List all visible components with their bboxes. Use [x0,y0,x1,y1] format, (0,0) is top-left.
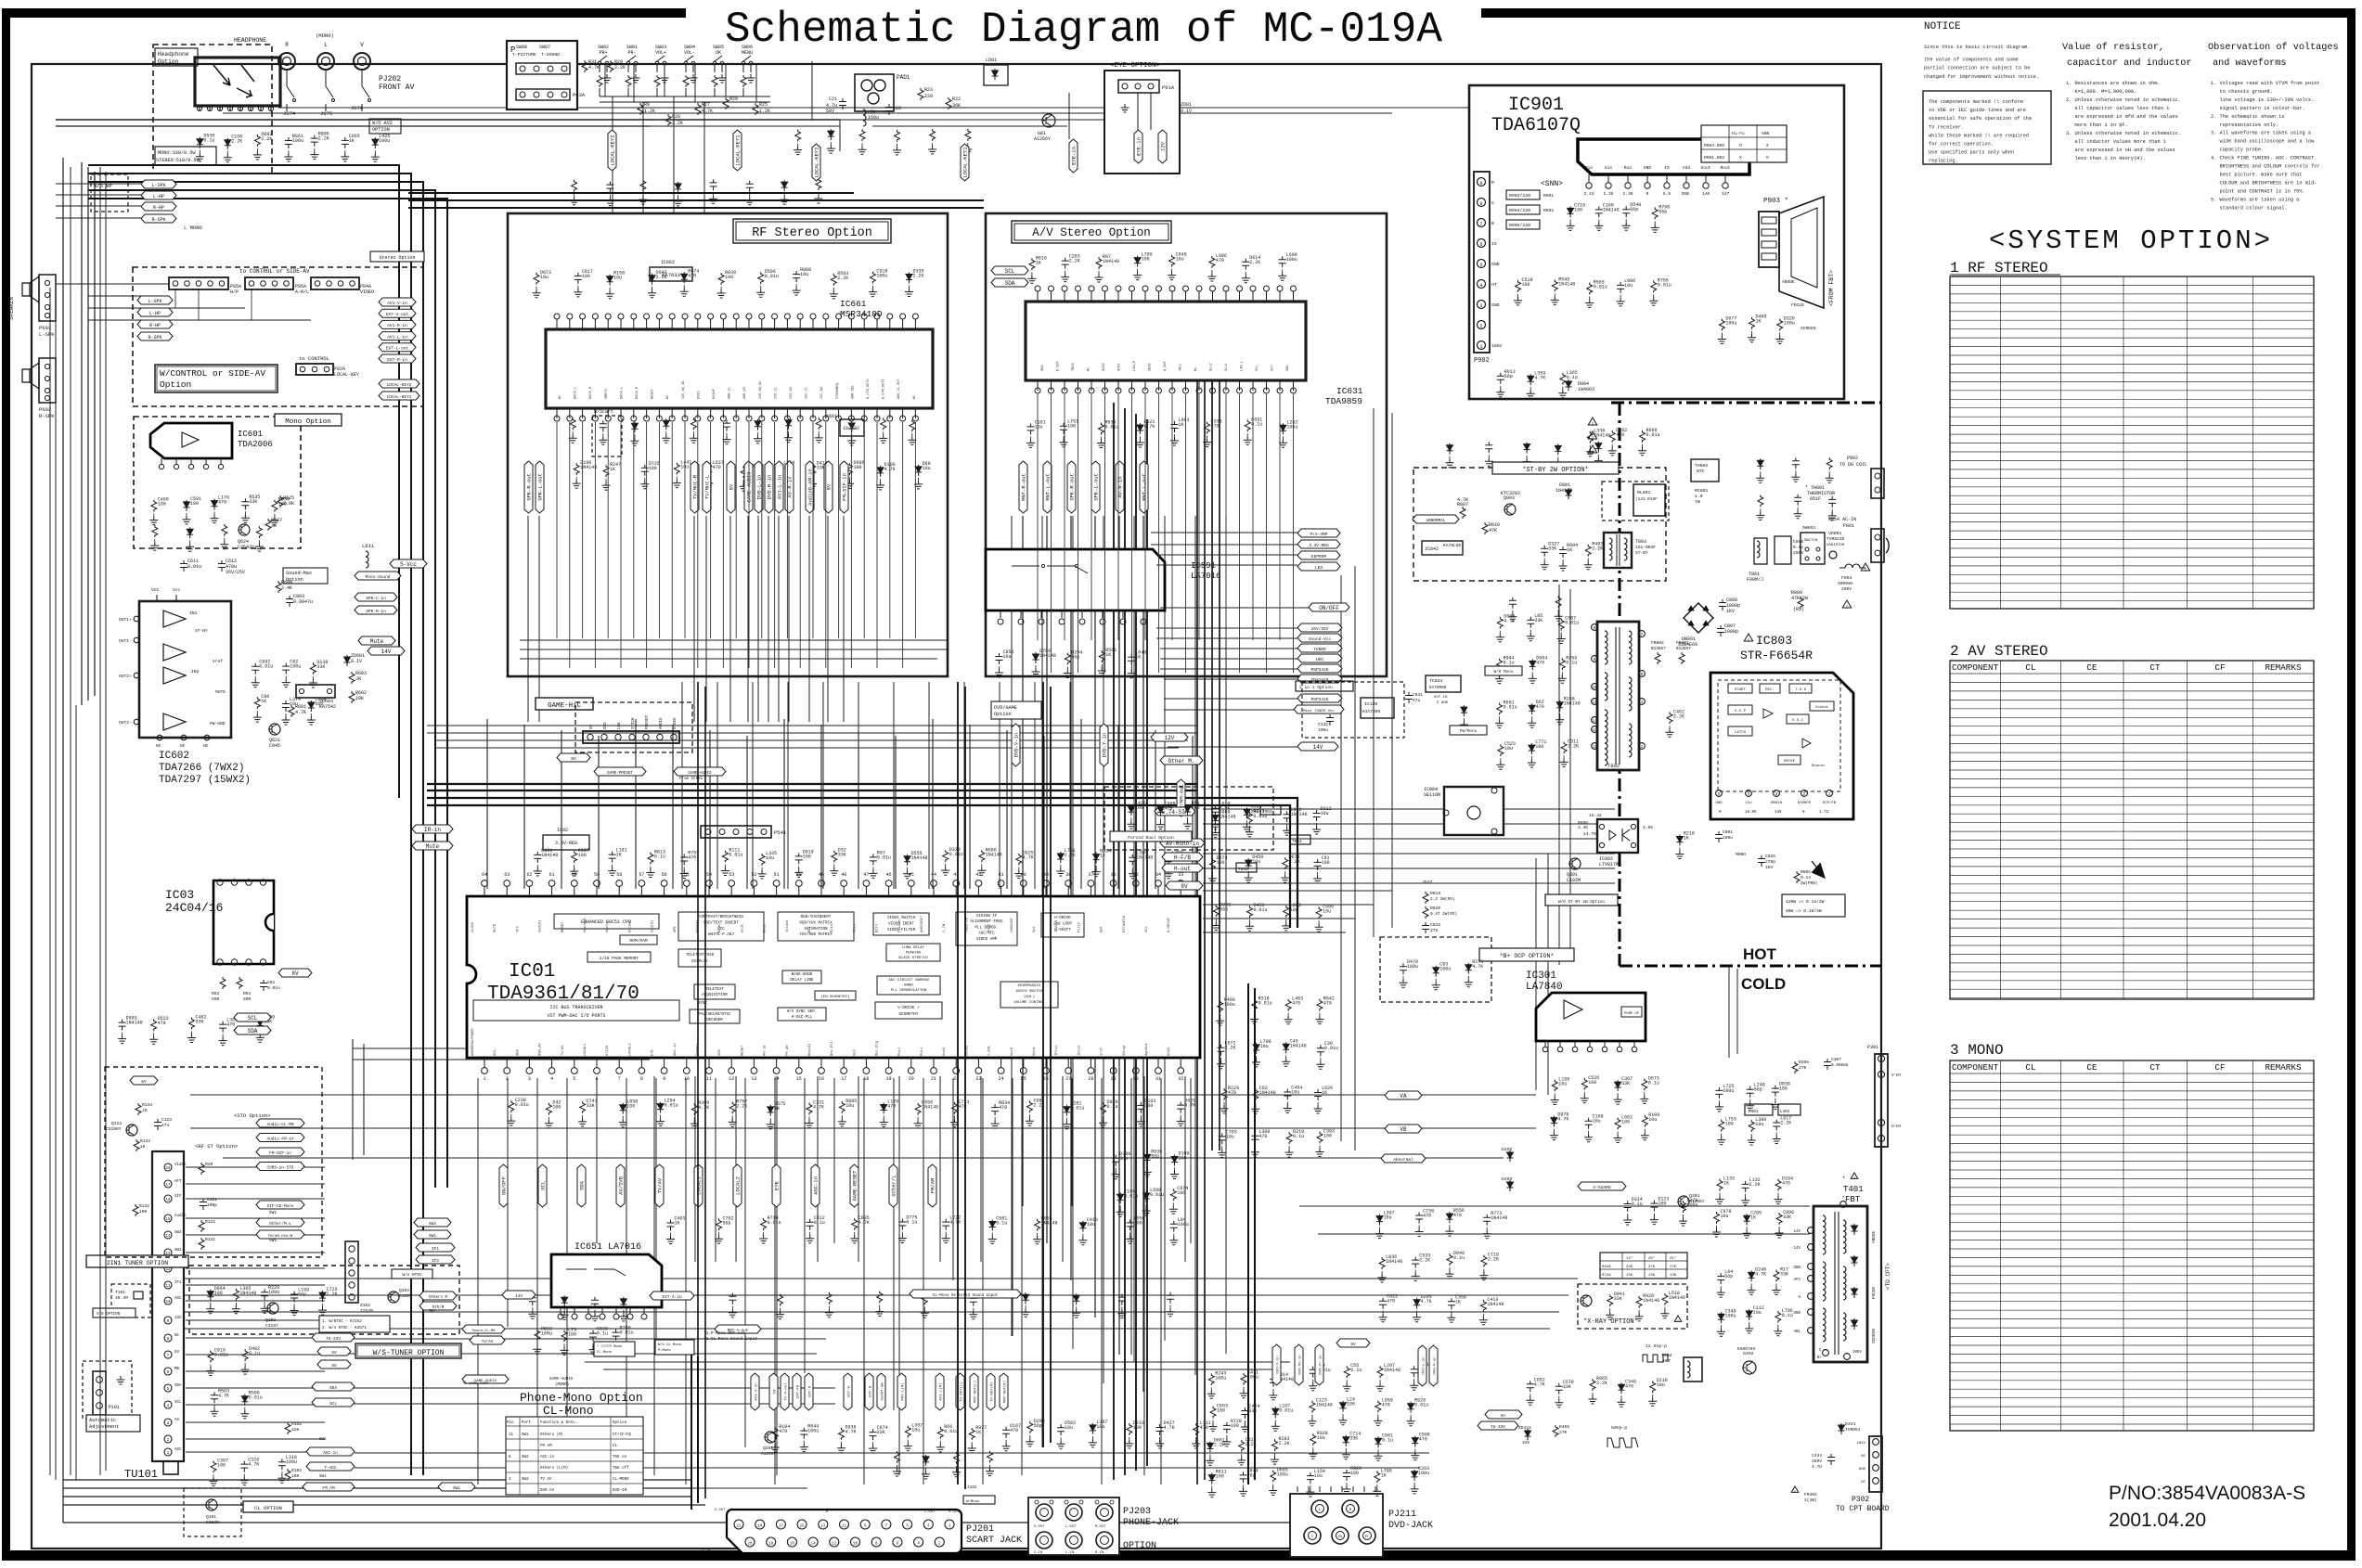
svg-text:0.1u: 0.1u [203,138,214,144]
w/control or side-av option dashed box [133,267,423,406]
transistor cluster right of IC01 bottom [1112,1155,1119,1166]
svg-text:10u: 10u [766,855,774,861]
svg-text:100: 100 [1574,207,1582,212]
svg-text:120W => 0.13/2W: 120W => 0.13/2W [1786,899,1825,905]
component cluster forced dual [1128,804,1134,816]
pills B+ TU-33V [1485,1410,1522,1419]
diode cluster st-by [1541,546,1548,557]
svg-text:NC: NC [913,395,917,399]
resistor R602 [349,691,355,703]
svg-text:VIDEO AMP: VIDEO AMP [976,938,998,942]
crystal X661 [840,419,864,436]
svg-text:51: 51 [774,872,780,878]
svg-text:1K: 1K [774,1106,780,1112]
svg-text:GND: GND [1644,165,1652,171]
svg-text:8V: 8V [141,1079,147,1085]
svg-text:LOCAL2: LOCAL2 [735,1176,742,1195]
svg-text:LOCAL-KEY1: LOCAL-KEY1 [735,135,742,166]
svg-text:2.2K: 2.2K [1279,1441,1290,1446]
svg-text:ANODE: ANODE [1872,1230,1877,1243]
svg-text:D402: D402 [1502,1147,1513,1152]
svg-text:10u: 10u [1323,908,1331,914]
svg-text:0.01u: 0.01u [1565,621,1579,626]
svg-text:IF2: IF2 [432,1259,439,1264]
svg-text:FM/AM: FM/AM [930,1178,936,1194]
resistor R601 [289,705,294,717]
svg-text:2.05: 2.05 [1643,825,1653,830]
svg-text:1K: 1K [1684,836,1689,842]
svg-text:R-HP: R-HP [153,205,164,211]
svg-text:R121: R121 [205,1237,215,1242]
svg-text:V-OUT: V-OUT [715,1509,726,1512]
svg-text:2.2K: 2.2K [318,136,329,142]
svg-text:ABL: ABL [1793,1330,1801,1334]
svg-text:R903/220: R903/220 [1509,193,1530,199]
svg-text:0.1u: 0.1u [996,1221,1007,1227]
svg-text:2.36: 2.36 [1622,191,1633,197]
svg-text:partial connection are subject: partial connection are subject to be [1924,66,2030,71]
svg-text:Mute: Mute [370,638,384,645]
svg-text:CVBSINT: CVBSINT [1011,917,1014,932]
svg-text:Gin: Gin [1605,165,1613,171]
svg-text:8V: 8V [1350,1343,1356,1347]
svg-text:2.43: 2.43 [1583,191,1594,197]
svg-text:Mute: Mute [426,843,440,850]
svg-text:1N4003: 1N4003 [1578,387,1594,392]
svg-text:MNT-L-out: MNT-L-out [1142,473,1148,501]
power caps right [1676,835,1683,846]
svg-text:1S1-003F: 1S1-003F [1635,545,1656,550]
IC301 components cluster [1552,1080,1557,1092]
svg-text:Gnd3: Gnd3 [942,1047,947,1056]
svg-text:changed for improvement withou: changed for improvement without notice. [1924,74,2039,80]
svg-text:CT/CF/CE: CT/CF/CE [613,1433,632,1437]
svg-text:1N4148: 1N4148 [239,1291,256,1296]
svg-text:I2C_CL: I2C_CL [806,387,809,399]
svg-text:470: 470 [713,465,721,470]
svg-text:Ph12: Ph12 [897,1047,902,1056]
svg-text:J574: J574 [283,110,296,117]
svg-text:HT: HT [1491,282,1497,288]
ws tuner option label [355,1343,461,1358]
svg-text:TDA7266 (7WX2): TDA7266 (7WX2) [159,763,244,774]
svg-text:G2in: G2in [852,924,857,932]
svg-text:33K: 33K [1534,618,1542,623]
svg-text:Dec_P1l: Dec_P1l [830,1040,834,1056]
svg-text:CL-Mono: CL-Mono [597,1351,613,1355]
svg-text:P03A: P03A [573,92,586,98]
component cluster IC661 lower dense [570,418,575,430]
svg-text:Iblack: Iblack [785,919,790,932]
headphone option dashed box [153,45,272,174]
svg-text:4.7K: 4.7K [1472,964,1483,970]
svg-text:33K: 33K [316,664,325,670]
X-cap C809 [1775,536,1791,564]
IC01 teletext acq box [694,984,735,999]
component cluster left of IC01 [119,1020,126,1031]
capacitor C611 C612 [180,560,187,572]
svg-text:H-F/B: H-F/B [1174,855,1191,861]
op-amp IC601 [150,423,232,458]
svg-text:470: 470 [1616,432,1624,438]
svg-text:2.2K: 2.2K [837,276,848,281]
svg-text:L: L [324,42,328,48]
2in1 tuner option label [86,1255,188,1267]
svg-text:1N4148: 1N4148 [1386,1259,1402,1265]
svg-text:1N4148: 1N4148 [1491,1215,1507,1221]
svg-text:2.2K: 2.2K [231,139,242,145]
svg-text:2.2K: 2.2K [614,65,626,71]
stand-by transformer T803 [1604,533,1632,568]
svg-text:R448: R448 [1602,1266,1611,1269]
svg-text:20: 20 [909,1076,914,1082]
svg-text:33K: 33K [1248,1408,1257,1414]
svg-text:100: 100 [1144,1103,1153,1109]
svg-text:470: 470 [1010,1428,1018,1433]
transistor Q102 [267,1303,278,1314]
svg-text:Z102: Z102 [360,1303,370,1308]
svg-text:TV receiver.: TV receiver. [1929,124,1964,130]
svg-text:SCREEN: SCREEN [1872,1329,1877,1343]
svg-text:35V/25V: 35V/25V [226,570,245,575]
svg-text:1K: 1K [349,138,355,144]
IC651 components [529,1294,536,1305]
svg-text:R: R [1491,180,1494,186]
control connector strip 2 [245,277,293,289]
pills IR-in Mute mid [412,825,453,833]
svg-text:KA7633: KA7633 [662,272,680,278]
svg-text:SW2: SW2 [269,1211,277,1215]
IC01 iic box [473,1000,679,1021]
scart connector PJ201 [727,1510,962,1553]
svg-text:100u: 100u [286,1459,297,1465]
regulator KA7633 [650,267,692,281]
svg-text:R904.905: R904.905 [1704,143,1724,148]
component cluster IC601 row2 [152,525,158,537]
svg-text:470: 470 [999,1105,1007,1111]
svg-text:RESET: RESET [741,1045,744,1056]
svg-text:GND: GND [1715,802,1723,805]
svg-text:SW1: SW1 [429,1310,436,1314]
svg-text:56: 56 [662,872,667,878]
svg-text:29: 29 [1111,1076,1116,1082]
svg-text:CL: CL [2025,1062,2035,1073]
svg-text:1: 1 [1479,344,1482,350]
svg-text:470: 470 [1423,1214,1431,1219]
svg-text:135: 135 [1775,811,1782,815]
svg-text:13K: 13K [1626,1274,1633,1278]
st-by 2w option label [1492,462,1619,474]
svg-text:Vdr8: Vdr8 [1010,1047,1014,1056]
svg-text:8V: 8V [571,756,576,762]
svg-text:Audio-AM-in: Audio-AM-in [267,1137,294,1141]
svg-text:TC844: TC844 [1429,678,1443,684]
svg-text:SDA: SDA [329,1386,337,1391]
svg-text:GAME-RESET: GAME-RESET [852,1170,858,1202]
svg-text:START: START [1735,688,1747,692]
svg-text:UOC: UOC [1316,657,1323,662]
hot cold divider [1611,403,1881,966]
svg-text:AFC: AFC [1793,1279,1801,1282]
svg-text:32: 32 [1178,1076,1183,1082]
svg-text:28: 28 [1088,1076,1093,1082]
svg-text:CF: CF [2214,662,2225,673]
svg-text:YUV/RGB MATRIX: YUV/RGB MATRIX [799,932,833,937]
dvd pills [1418,1345,1426,1386]
svg-text:GAME-AUDIO: GAME-AUDIO [549,1378,574,1382]
svg-text:A1266Y: A1266Y [1034,136,1051,142]
svg-text:I2S_WS: I2S_WS [790,387,794,399]
svg-text:10: 10 [142,1108,148,1113]
svg-text:44: 44 [931,872,936,878]
svg-text:5.5: 5.5 [1663,191,1671,197]
power components cluster B [1461,705,1467,716]
svg-text:MNT-L(M): MNT-L(M) [901,1382,906,1400]
svg-text:REC-: REC- [1765,688,1775,692]
svg-text:!: ! [1853,1176,1854,1180]
svg-text:C102M: C102M [206,1520,219,1525]
svg-text:SCL: SCL [494,1048,497,1056]
resistor R627 [265,519,271,531]
svg-text:1K: 1K [1105,652,1111,658]
svg-text:470: 470 [1625,1383,1633,1389]
svg-text:NC: NC [203,743,209,749]
svg-text:NC: NC [180,743,186,749]
svg-text:A1266Y: A1266Y [1689,1199,1705,1204]
svg-text:Hi-Fo: Hi-Fo [1732,131,1745,136]
svg-text:2.2K: 2.2K [1289,859,1300,865]
svg-text:R819: R819 [1430,891,1440,896]
svg-text:38: 38 [1065,872,1071,878]
W/O HP dashed box [91,174,128,212]
svg-text:1K: 1K [1567,547,1572,553]
svg-text:B13657: B13657 [1651,647,1666,651]
wire bottom right horizontals [585,1206,1810,1369]
svg-text:470: 470 [218,500,226,506]
svg-text:2.2K: 2.2K [1065,853,1076,858]
svg-text:<SYSTEM OPTION>: <SYSTEM OPTION> [1989,225,2273,256]
connector Z102 [345,1241,358,1303]
svg-text:61: 61 [549,872,555,878]
svg-text:R29: R29 [729,96,738,102]
2in1 option area [1302,682,1404,738]
svg-text:5. Waveforms are taken using a: 5. Waveforms are taken using a [2211,197,2299,202]
svg-text:-14V: -14V [1791,1247,1801,1251]
svg-text:G: G [1491,200,1494,206]
svg-text:C102M: C102M [1567,878,1581,883]
svg-text:HDT: HDT [1663,1358,1671,1364]
svg-text:Option: Option [994,712,1012,717]
svg-text:SCL: SCL [540,1181,547,1190]
svg-text:14: 14 [1592,720,1597,724]
front AV jack R [278,53,295,70]
svg-text:STANDBYQ: STANDBYQ [836,383,840,399]
tuner TU101 [152,1151,184,1461]
svg-text:33K: 33K [1119,1156,1128,1162]
pills SPK-L-in SPK-R-in [355,593,397,601]
svg-text:0.01u: 0.01u [1414,1403,1428,1408]
svg-text:Dec80: Dec80 [965,1045,969,1056]
svg-text:270p: 270p [1765,859,1775,865]
component cluster stby extra [1447,443,1453,455]
cpt connector P302 [1869,1436,1882,1492]
svg-text:SCL: SCL [1145,925,1149,932]
svg-text:1N4148: 1N4148 [1103,259,1119,264]
svg-text:NC: NC [1861,1455,1865,1459]
svg-text:47u: 47u [1413,698,1421,703]
svg-text:19: 19 [757,1525,763,1529]
svg-text:Sound-CL-MN: Sound-CL-MN [471,1329,495,1333]
amplifier IC602 [139,601,231,738]
svg-text:OscGnd: OscGnd [627,919,632,932]
svg-text:10u: 10u [1657,1382,1665,1388]
svg-text:16: 16 [819,1076,824,1082]
mono stereo note box [155,147,216,165]
svg-text:AV1-V-in: AV1-V-in [387,301,407,306]
schematic inner frame [32,64,1881,1549]
svg-text:R-SPK: R-SPK [148,335,161,341]
svg-text:NC: NC [156,743,161,749]
svg-text:R26: R26 [672,114,680,120]
svg-text:H-DRIVE: H-DRIVE [1168,917,1171,932]
svg-text:C945: C945 [269,743,280,749]
svg-text:0.01u: 0.01u [214,1353,228,1358]
svg-text:11: 11 [509,1433,514,1437]
mid filter boxes [1260,805,1281,815]
svg-text:10u: 10u [1624,283,1633,289]
svg-text:MONO:330/0.5W: MONO:330/0.5W [158,150,196,156]
svg-text:3. Unless otherwise noted in s: 3. Unless otherwise noted in schematic. [2066,131,2181,136]
svg-text:100u: 100u [1286,257,1297,263]
svg-text:O: O [1766,155,1769,161]
svg-text:CVBS-in-STD: CVBS-in-STD [267,1165,294,1170]
svg-text:2.2K: 2.2K [1488,1257,1499,1263]
eye option box [1104,71,1180,174]
P902 connector [1474,172,1490,353]
transistor Q621 [269,724,280,735]
svg-text:Q301: Q301 [1689,1193,1700,1199]
svg-text:to chassis ground.: to chassis ground. [2211,89,2273,95]
resistor R809 [1798,597,1803,609]
svg-text:C801: C801 [1723,829,1733,835]
svg-text:Others M: Others M [429,1295,448,1300]
G2 G1 cluster [1719,319,1724,331]
component cluster power inlet [1757,458,1763,469]
svg-text:From IC661: From IC661 [679,778,703,781]
svg-text:26V/25V: 26V/25V [1311,626,1329,632]
coil L611 [366,551,368,568]
svg-text:Audio-CL-MN: Audio-CL-MN [267,1123,294,1127]
svg-text:MSP341D: MSP341D [1311,667,1329,673]
wire verticals below IC01 dense [478,1078,1191,1484]
svg-text:80W => 0.18/2W: 80W => 0.18/2W [1786,908,1822,914]
svg-text:2.35: 2.35 [1603,191,1613,197]
svg-text:10u: 10u [613,276,622,281]
svg-text:100: 100 [1658,1202,1666,1207]
svg-text:A: A [1880,1058,1883,1062]
svg-text:MENU: MENU [742,50,753,56]
w/scart dashed box [592,416,622,456]
svg-text:6: 6 [595,1076,598,1082]
svg-text:14: 14 [165,1235,171,1239]
svg-text:AGC/AFC: AGC/AFC [978,932,995,936]
svg-text:FM_AM: FM_AM [322,1486,335,1491]
svg-text:3 MONO: 3 MONO [1950,1042,2004,1059]
svg-text:1N4148: 1N4148 [1259,1090,1276,1096]
svg-text:4.7K: 4.7K [1421,1299,1432,1305]
svg-text:9: 9 [1479,181,1482,186]
svg-text:VISION IF: VISION IF [976,915,998,919]
svg-text:D/B: D/B [908,1552,915,1557]
svg-text:100u: 100u [1215,1375,1226,1381]
svg-text:W/CONTROL or SIDE-AV: W/CONTROL or SIDE-AV [160,368,265,379]
IC901 block frame [1469,85,1844,399]
svg-text:VCC: VCC [1271,366,1275,371]
AV box pills [991,266,1028,275]
svg-text:1N4148: 1N4148 [1487,1302,1504,1307]
svg-text:IFVout: IFVout [1055,919,1059,932]
svg-text:W/S-TUNER OPTION: W/S-TUNER OPTION [373,1349,445,1357]
resistor R603 [349,672,355,684]
svg-text:DVD AV: DVD AV [540,1489,555,1493]
wires control box [88,283,169,285]
svg-text:FW/Mono: FW/Mono [1460,729,1478,734]
svg-text:140: 140 [1702,191,1710,197]
svg-text:VIDEO: VIDEO [674,717,678,729]
svg-text:2.2 2W(RS): 2.2 2W(RS) [1430,897,1454,902]
svg-text:T-PICTURE: T-PICTURE [512,52,536,58]
svg-text:WHITE-P.ADJ: WHITE-P.ADJ [708,933,734,937]
svg-text:Fb12in: Fb12in [897,919,902,932]
svg-text:46: 46 [886,872,892,878]
cap C444 [1827,1454,1835,1465]
svg-text:8V: 8V [729,483,735,490]
svg-text:7W: 7W [1695,499,1700,505]
speaker connector P601 [39,275,56,321]
svg-text:STICK: STICK [632,717,636,729]
svg-text:T402: T402 [1661,1353,1672,1358]
svg-text:1K: 1K [610,467,615,472]
svg-text:31: 31 [1155,1076,1161,1082]
svg-text:1N4148: 1N4148 [1291,812,1308,817]
svg-text:0.01u: 0.01u [1124,1193,1138,1199]
if components cluster [207,1290,213,1301]
svg-text:0.1u: 0.1u [249,1351,260,1356]
svg-text:IX: IX [1491,241,1497,247]
svg-text:100u: 100u [1725,1313,1736,1318]
st-by 2w option dashed box [1413,468,1666,581]
pills tuner right [312,1333,355,1342]
svg-text:LUMA DELAY: LUMA DELAY [902,946,925,950]
power pills left [1297,529,1340,537]
svg-text:EXT-G: EXT-G [848,1385,852,1397]
svg-text:SPK-R-out: SPK-R-out [526,473,533,501]
svg-text:470: 470 [688,855,696,861]
svg-text:EXT-R-in: EXT-R-in [387,357,407,363]
wire IC631 bottom pin drops [1038,394,1294,673]
svg-text:SW3: SW3 [174,1231,182,1235]
local key pills [379,379,419,388]
svg-text:TV/AV: TV/AV [482,1340,494,1344]
svg-text:1N4148: 1N4148 [911,855,928,861]
tuner bypass caps [208,1351,213,1363]
svg-text:IN1: IN1 [189,610,198,616]
warning triangles AC [1842,600,1852,608]
svg-text:SW2: SW2 [319,1438,327,1442]
svg-text:RL801: RL801 [1637,490,1651,495]
svg-text:H/P: H/P [230,289,239,295]
svg-text:56p: 56p [1247,1472,1256,1478]
